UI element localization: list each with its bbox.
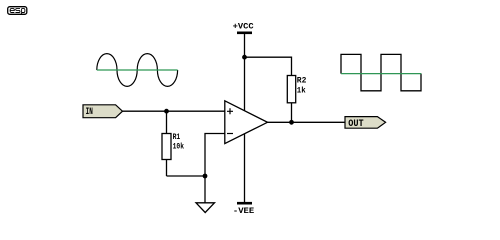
square zero line (green) (341, 73, 421, 75)
+VCC power symbol (233, 22, 254, 111)
svg-text:+VCC: +VCC (233, 22, 254, 32)
node junction dot (IN / R1) (164, 109, 169, 114)
wire op-amp output to OUT (268, 121, 346, 123)
node junction dot (R1 / -input / ground) (203, 174, 208, 179)
square wave graphic (341, 54, 421, 90)
svg-text:1k: 1k (297, 85, 306, 95)
wire node to op-amp - input (205, 134, 225, 177)
node junction dot (output / R2) (289, 120, 294, 125)
svg-text:OUT: OUT (348, 119, 363, 130)
wire VCC to R2 (245, 57, 292, 75)
resistor R2 (287, 75, 306, 122)
op-amp U1 (225, 101, 268, 144)
resistor R1 (162, 111, 205, 176)
sine zero line (green) (97, 69, 178, 71)
svg-text:IN: IN (86, 107, 93, 118)
svg-text:R1: R1 (173, 132, 181, 142)
port IN (83, 105, 123, 118)
node junction dot (VCC / R2) (242, 55, 247, 60)
svg-text:10k: 10k (173, 142, 184, 152)
ESP logo (8, 7, 27, 15)
wire IN to op-amp + input (123, 110, 226, 112)
svg-text:-VEE: -VEE (233, 206, 254, 216)
port OUT (345, 117, 386, 130)
-VEE power pin (233, 134, 254, 216)
svg-text:R2: R2 (297, 75, 307, 85)
ground (196, 176, 215, 213)
sine wave graphic (97, 54, 178, 87)
